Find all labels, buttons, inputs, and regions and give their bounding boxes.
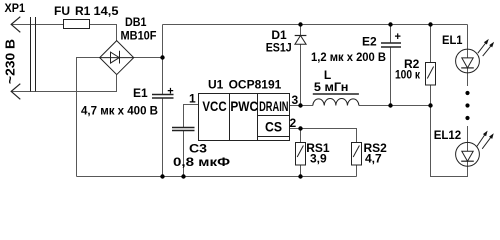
node pin3 [298,103,302,107]
svg-text:3: 3 [292,93,299,107]
LED EL1 diode [462,58,473,68]
svg-text:1: 1 [189,92,196,106]
inductor L windings [313,98,359,105]
resistor RS1 box [296,143,306,166]
LED EL12 circle [456,142,480,166]
wire pin2 to RS2 top [290,129,357,143]
wire E1 vertical bottom [162,98,164,177]
LED EL1 arrows [478,41,488,54]
node bridge out [160,55,164,59]
svg-text:3,9: 3,9 [310,152,327,166]
svg-text:2: 2 [290,116,297,130]
node C3 ground [181,174,185,178]
svg-text:100 к: 100 к [395,68,421,82]
wire R2 top [430,25,432,63]
connector arrow bottom [11,84,20,100]
svg-text:0,8 мкФ: 0,8 мкФ [173,155,230,169]
svg-text:14,5: 14,5 [94,4,119,18]
resistor RS2 box [352,143,362,166]
wire E2 top [390,25,392,44]
node R2 bottom [428,103,432,107]
node E2 bottom [388,103,392,107]
wire RS1 bottom [300,165,302,177]
wire EL12 return path [431,106,468,177]
svg-text:U1: U1 [208,78,224,92]
node pin2 [298,126,302,130]
svg-text:MB10F: MB10F [121,29,157,43]
wire top mains [12,24,64,26]
wire pin3 [290,105,313,107]
diode D1 [295,35,307,37]
wire EL1 bottom stub [467,68,469,86]
node E2 top rail [388,22,392,26]
wire D1 cathode stub [300,25,302,36]
wire R2 bottom [430,85,432,106]
bridge inner diode [100,57,134,59]
svg-text:1,2 мк x 200 В: 1,2 мк x 200 В [311,50,386,64]
svg-text:~230 В: ~230 В [3,39,18,84]
svg-text:+: + [167,86,173,98]
node D1 top rail [298,22,302,26]
inductor L core [313,93,359,95]
wire EL12 top stub [467,126,469,151]
svg-text:С3: С3 [189,141,207,155]
svg-text:OCP8191: OCP8191 [229,78,282,92]
wire bridge right to node [134,57,163,59]
resistor R2 box [426,63,436,86]
svg-text:E2: E2 [362,35,377,49]
wire riser to top rail [162,25,164,58]
wire pin1 to C3 [184,105,199,128]
wire L to E2 to R2 node [359,105,431,107]
node E1 ground [160,174,164,178]
svg-text:XP1: XP1 [5,1,26,15]
capacitor E1 plates [152,94,174,96]
svg-text:4,7: 4,7 [365,152,382,166]
svg-text:5 мГн: 5 мГн [314,80,349,94]
connector arrow top [11,17,20,33]
wire top rail [163,24,468,26]
wire C3 bottom [183,131,185,177]
connector XP1 double lines [30,17,32,92]
wire E2 bottom [390,47,392,106]
svg-text:EL1: EL1 [442,33,463,47]
wire ground rail [77,176,357,178]
capacitor C3 plates [172,127,195,129]
node RS1 ground [298,174,302,178]
resistor R1 fuse box [64,20,90,29]
wire bridge left to ground rail [77,58,101,177]
svg-text:CS: CS [265,119,282,135]
svg-text:PWC: PWC [230,98,258,114]
svg-text:DRAIN: DRAIN [259,98,288,114]
wire fuse to bridge corner [90,25,117,42]
svg-text:EL12: EL12 [434,128,462,142]
wire RS2 bottom [356,165,358,177]
node R2 top rail [428,22,432,26]
wire D1 anode to node3 [300,44,302,105]
LED EL12 arrows [477,132,487,146]
wire E1 vertical top [162,58,164,95]
svg-text:DB1: DB1 [125,15,147,29]
op IC U1 box [199,94,290,141]
svg-text:R1: R1 [75,4,91,18]
wire bottom mains [12,75,117,92]
wire EL1 top [467,25,469,58]
bridge DB1 diamond [100,41,134,75]
svg-text:VCC: VCC [202,98,226,114]
svg-text:+: + [395,31,401,43]
svg-text:E1: E1 [133,86,148,100]
svg-text:4,7 мк x 400 В: 4,7 мк x 400 В [81,104,158,118]
wire RS1 top [300,129,302,143]
node ellipsis dots EL chain [465,91,469,95]
capacitor E2 plates [381,42,401,44]
svg-text:FU: FU [54,4,70,18]
LED EL12 diode [462,151,473,161]
LED EL1 circle [456,49,480,73]
svg-text:ES1J: ES1J [266,41,292,55]
